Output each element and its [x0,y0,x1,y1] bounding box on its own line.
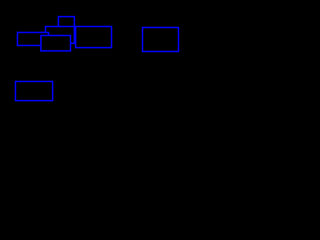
rectangle R4 (center-bottom rect, top z of cluster) [41,36,71,51]
rectangle R2 (large right rect of cluster, bottom z) [76,27,112,48]
rectangle R5 (standalone right rect) [143,28,179,52]
rectangle R6 (standalone bottom-left rect) [15,81,52,100]
rectangle Rw (wide middle rect over R1) [45,27,74,44]
drawing canvas [0,0,200,113]
rectangle R1 (tall top rect, partly hidden) [58,17,74,44]
rectangle R3 (left rect over Rw) [17,32,48,45]
